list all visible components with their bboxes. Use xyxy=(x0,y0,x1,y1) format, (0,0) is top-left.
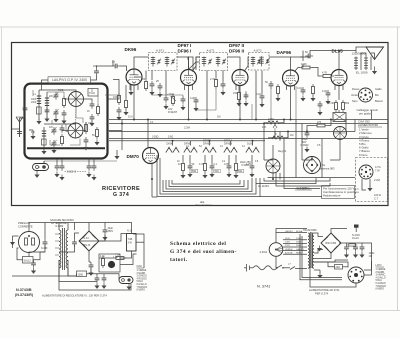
volume pot 0.5M xyxy=(264,118,282,131)
wires from tuner box right edge xyxy=(108,93,120,99)
svg-text:Blu: Blu xyxy=(375,93,379,97)
faint page border top xyxy=(0,26,400,28)
tuner label box LA/LP/V1 xyxy=(48,77,91,83)
grid cap 47 to DK96 xyxy=(112,64,120,69)
svg-text:N.3289: N.3289 xyxy=(56,225,64,228)
wire R.SENT feed xyxy=(105,94,119,96)
svg-text:B30 C350: B30 C350 xyxy=(326,242,337,245)
svg-text:7 BIANCO: 7 BIANCO xyxy=(137,286,148,289)
svg-text:Rosso: Rosso xyxy=(352,87,360,91)
mid components under tents 4.7K 0.1 xyxy=(199,161,255,178)
svg-text:DF96 II: DF96 II xyxy=(224,143,233,146)
svg-text:LA/LP/V1 G.P. IV. 2400: LA/LP/V1 G.P. IV. 2400 xyxy=(52,78,87,82)
svg-text:DM70: DM70 xyxy=(127,154,140,159)
svg-text:2 MARR.: 2 MARR. xyxy=(137,272,147,275)
1000 box pot xyxy=(77,271,87,277)
right cable list LATO xyxy=(376,264,387,291)
svg-text:TC/B: TC/B xyxy=(58,90,64,92)
IF transformer A671 II dashed box xyxy=(200,53,228,71)
svg-text:4 ROSSO: 4 ROSSO xyxy=(137,278,147,280)
mains plug prongs xyxy=(244,264,253,272)
wire from label box left xyxy=(42,80,49,90)
svg-text:100 Ω: 100 Ω xyxy=(374,193,381,197)
cord wavy xyxy=(253,266,277,270)
svg-text:AZZUR.: AZZUR. xyxy=(285,251,293,254)
svg-text:7 W: 7 W xyxy=(375,168,380,172)
right schematic wires xyxy=(314,233,323,237)
svg-text:4 GIALLO: 4 GIALLO xyxy=(376,276,386,279)
svg-text:100K: 100K xyxy=(31,99,37,101)
svg-text:N.34: N.34 xyxy=(84,237,90,240)
voltage selector xyxy=(260,243,283,257)
svg-text:Raddrizzatore: Raddrizzatore xyxy=(323,194,341,198)
tuner interior resistor mid xyxy=(63,96,66,108)
reg fil crossed box xyxy=(333,113,346,122)
svg-text:Su: Su xyxy=(322,163,326,167)
wave band switch rotary xyxy=(266,150,287,173)
AVC bus xyxy=(109,123,388,125)
extra vertical drops to loop area xyxy=(263,124,265,161)
470 wiring xyxy=(307,126,315,131)
tuner interior trimmer row xyxy=(53,92,58,122)
loop bottom connectors xyxy=(152,196,157,198)
svg-text:47K: 47K xyxy=(31,132,36,134)
svg-text:ALIMENTATORE DI REGOLATORE V: ALIMENTATORE DI REGOLATORE V.I. 13/I PER… xyxy=(42,294,107,298)
svg-text:DAF96: DAF96 xyxy=(277,50,292,55)
svg-text:C.7: C.7 xyxy=(374,196,379,200)
DM70 right components 10 50 xyxy=(178,161,195,178)
wire DAF96 anode to DL95 grid xyxy=(295,68,301,72)
tube DK96 xyxy=(126,69,142,85)
svg-text:alimentazione: alimentazione xyxy=(195,203,213,207)
svg-text:G 374: G 374 xyxy=(113,192,129,198)
svg-text:DL95: DL95 xyxy=(332,49,344,54)
svg-text:16+16: 16+16 xyxy=(352,237,359,240)
tube DAF96 xyxy=(283,70,299,86)
antenna xyxy=(16,117,23,137)
volume pot wiring xyxy=(263,122,265,125)
svg-text:5.6Ω: 5.6Ω xyxy=(168,136,173,139)
antenna wire into tuner xyxy=(20,118,25,137)
tuner right components xyxy=(90,101,95,109)
svg-text:A.671: A.671 xyxy=(207,49,215,53)
tuner unit rounded box xyxy=(25,84,108,159)
switch drop xyxy=(272,145,274,159)
svg-text:5 BLU: 5 BLU xyxy=(137,281,144,283)
wire IF1 to DF96I grid xyxy=(177,57,189,70)
vertical drops from tubes to bus xyxy=(133,85,135,120)
svg-text:47K: 47K xyxy=(262,126,267,129)
svg-text:4.7K: 4.7K xyxy=(322,72,327,75)
pickup wire to switch xyxy=(43,161,45,164)
svg-text:+20μF: +20μF xyxy=(167,93,175,96)
regulator cluster xyxy=(99,254,120,272)
svg-text:2.7K: 2.7K xyxy=(210,78,215,81)
svg-text:7 BIANCO: 7 BIANCO xyxy=(376,285,387,288)
wire IF2 to DF96II xyxy=(228,57,241,70)
tuner right block TC/A xyxy=(88,89,98,97)
0.1uF cap xyxy=(43,239,48,247)
tuning gang RF section xyxy=(69,92,84,107)
tuner interior labels xyxy=(31,90,95,137)
ground under transformer xyxy=(317,273,322,279)
tube DL95 xyxy=(331,70,347,86)
faint page border right xyxy=(397,27,399,311)
extra verticals right section xyxy=(354,120,356,132)
470 resistor xyxy=(315,124,328,127)
svg-text:10 K: 10 K xyxy=(128,116,133,119)
wire DF96II anode to IF3 xyxy=(244,57,249,72)
battery connector oval xyxy=(119,277,133,290)
tuner osc coil stack xyxy=(41,127,46,154)
svg-text:CORRENTE: CORRENTE xyxy=(18,224,33,228)
tube DF96 I xyxy=(181,70,197,86)
component drops below tents xyxy=(182,155,184,161)
svg-text:5 BLU: 5 BLU xyxy=(376,280,383,282)
svg-text:8 Nero: 8 Nero xyxy=(359,153,368,157)
svg-text:1M: 1M xyxy=(217,116,220,119)
bus line 5 xyxy=(109,140,265,142)
svg-text:OSC: OSC xyxy=(88,123,93,125)
speaker triangle xyxy=(366,47,384,60)
tuner interior left coil stack 1 xyxy=(33,90,42,124)
svg-text:3 ARANC.: 3 ARANC. xyxy=(376,274,387,277)
svg-text:0.35Ω: 0.35Ω xyxy=(152,136,159,139)
svg-text:110V: 110V xyxy=(285,238,290,240)
PSU transformer xyxy=(50,219,74,276)
svg-text:per guida: per guida xyxy=(359,112,371,116)
DL95 cathode network 3.3K xyxy=(329,86,350,113)
svg-text:Verde: Verde xyxy=(351,93,358,97)
svg-text:1000: 1000 xyxy=(31,102,37,104)
svg-text:1K: 1K xyxy=(87,111,90,113)
selector drop to cord xyxy=(276,256,277,268)
wire DL95 anode to output transformer xyxy=(339,51,356,70)
tuning gang OSC section xyxy=(68,123,83,138)
svg-text:2.2M: 2.2M xyxy=(374,178,380,182)
faint page border left xyxy=(1,27,3,311)
svg-text:Giallo: Giallo xyxy=(375,87,382,91)
filter caps right xyxy=(344,225,365,258)
tube DF96 II xyxy=(232,70,248,86)
svg-text:CAVI: CAVI xyxy=(137,265,143,268)
tuner interior coil stack 2 xyxy=(44,92,49,122)
cavi dei alimentatori list xyxy=(358,120,382,157)
svg-text:Nero: Nero xyxy=(352,99,358,103)
svg-text:ALIMENTATORE AD 3741: ALIMENTATORE AD 3741 xyxy=(309,288,340,292)
svg-text:DF97 II: DF97 II xyxy=(229,43,244,48)
loop extensions right xyxy=(260,196,322,198)
DL95 grid components 4.7K xyxy=(317,72,333,116)
plug ground xyxy=(10,240,15,246)
DK96 bottom components xyxy=(128,71,162,98)
bus line 4 xyxy=(109,138,388,140)
svg-text:ROSA: ROSA xyxy=(296,230,303,233)
svg-text:Reg.Fil.: Reg.Fil. xyxy=(278,150,287,153)
junction dots on buses xyxy=(121,119,332,181)
0.22 cap right of DF96II xyxy=(260,93,265,101)
main receiver box xyxy=(12,43,389,206)
ground left of DM70 xyxy=(114,154,119,160)
svg-text:G 374 e dei suoi alimen-: G 374 e dei suoi alimen- xyxy=(170,249,237,255)
output transformer xyxy=(352,47,378,75)
svg-text:SAL12: SAL12 xyxy=(24,259,32,262)
bridge ground xyxy=(317,246,322,252)
svg-text:22Ω: 22Ω xyxy=(336,267,341,269)
socket cablaggio top view xyxy=(359,88,373,102)
DF96II cathode 15K xyxy=(233,86,249,107)
svg-text:6 GRIGIO: 6 GRIGIO xyxy=(376,283,386,285)
svg-text:4.7K: 4.7K xyxy=(100,256,105,258)
faint page border bottom xyxy=(0,310,400,312)
svg-text:(N.3743/R): (N.3743/R) xyxy=(15,293,34,297)
svg-text:RS 34: RS 34 xyxy=(84,244,91,247)
DF96I anode components 2.7K xyxy=(210,71,226,96)
svg-text:N. 3741: N. 3741 xyxy=(257,285,270,289)
svg-text:2.2M: 2.2M xyxy=(184,126,190,130)
svg-text:N.4801: N.4801 xyxy=(242,164,251,167)
svg-text:12Ω/500Ω: 12Ω/500Ω xyxy=(352,52,367,56)
wire 50 cap branch xyxy=(300,57,303,61)
cap right of transformer xyxy=(72,239,77,247)
wire across below tubes y110 xyxy=(196,89,216,110)
svg-text:DK96: DK96 xyxy=(125,47,137,52)
0.22 cap mid xyxy=(194,97,199,105)
7.5K resistor xyxy=(114,257,127,260)
20uF 10V R.SENT cluster xyxy=(163,93,185,114)
center caption schema elettrico xyxy=(170,241,237,263)
socket in dashed box xyxy=(359,165,373,179)
tube pin stubs xyxy=(129,84,131,90)
svg-text:0.05: 0.05 xyxy=(224,163,229,166)
switch contact xyxy=(277,265,282,268)
svg-text:A.672: A.672 xyxy=(254,49,262,53)
tuner interior wires xyxy=(39,90,76,92)
svg-text:2 MARR.: 2 MARR. xyxy=(376,271,386,274)
svg-text:DF96 II: DF96 II xyxy=(229,49,244,54)
right transformer xyxy=(303,229,317,268)
svg-text:A.671: A.671 xyxy=(156,49,164,53)
tube DM70 xyxy=(143,148,159,164)
wire DF96I anode up xyxy=(192,57,194,71)
filament tents xyxy=(166,146,172,152)
PSU wires xyxy=(29,223,103,232)
wire gang link xyxy=(75,107,78,124)
svg-text:LATO: LATO xyxy=(376,264,382,267)
tuner interior stepped wires xyxy=(52,120,68,124)
wire anode DK96 to IF1 xyxy=(134,57,149,69)
svg-text:1 VERDE: 1 VERDE xyxy=(137,270,147,272)
svg-text:A.5014: A.5014 xyxy=(260,251,268,254)
svg-text:0.22: 0.22 xyxy=(256,93,261,96)
svg-text:140V: 140V xyxy=(285,242,291,244)
DAF96 extra wires xyxy=(295,86,297,120)
svg-text:4.7K: 4.7K xyxy=(199,163,204,166)
svg-text:100K: 100K xyxy=(301,63,307,66)
DAF96 detector components xyxy=(265,51,316,101)
svg-text:0.28: 0.28 xyxy=(190,97,195,100)
antenna socket diamond xyxy=(304,157,335,174)
DM70 feed vertical xyxy=(147,120,149,148)
svg-text:4.7Ω: 4.7Ω xyxy=(375,165,381,169)
svg-text:AL 51085: AL 51085 xyxy=(296,186,308,190)
wire anode DF96I to IF2 xyxy=(189,62,200,70)
svg-text:150: 150 xyxy=(93,65,98,68)
PSU bridge xyxy=(79,231,99,251)
svg-text:R.SENT: R.SENT xyxy=(168,111,178,114)
25uF 40V N4900 electrolytic xyxy=(301,130,310,152)
svg-text:GRIGIO: GRIGIO xyxy=(285,231,293,233)
tent vertical feeds xyxy=(172,141,174,146)
svg-text:EL 1009: EL 1009 xyxy=(356,71,368,75)
svg-text:1 VERDE: 1 VERDE xyxy=(376,269,386,271)
reg fil spoked circle xyxy=(334,127,347,140)
svg-text:Schema elettrico del: Schema elettrico del xyxy=(170,241,226,247)
svg-text:0.02: 0.02 xyxy=(322,90,327,93)
svg-text:350V: 350V xyxy=(108,230,114,233)
R.SENT pot arrow xyxy=(171,96,177,101)
svg-text:1.2K: 1.2K xyxy=(113,257,118,259)
tuner osc trimmers xyxy=(51,125,64,153)
svg-text:260V: 260V xyxy=(296,245,302,247)
svg-text:220V: 220V xyxy=(285,245,291,247)
svg-text:22K: 22K xyxy=(141,78,146,81)
B+ bus main xyxy=(109,119,388,121)
ballast tube box xyxy=(127,230,137,252)
DK96 left components cluster xyxy=(113,80,129,121)
svg-text:3 W: 3 W xyxy=(128,241,133,244)
svg-text:1000: 1000 xyxy=(78,273,84,276)
svg-text:10K: 10K xyxy=(113,96,118,99)
IF transformer A671 I dashed box xyxy=(149,53,178,71)
left caps outside tuner xyxy=(23,105,28,113)
svg-text:500: 500 xyxy=(345,102,350,105)
IF transformer A672 dashed box xyxy=(249,53,270,71)
boxed 50ohm labels under tents xyxy=(177,161,259,173)
right bridge xyxy=(321,233,341,253)
note text box per funzionamento xyxy=(322,186,355,199)
svg-text:0.01: 0.01 xyxy=(297,87,302,90)
svg-text:8 NERO: 8 NERO xyxy=(376,289,385,291)
svg-text:TRASFORM.: TRASFORM. xyxy=(303,229,317,232)
svg-text:3 GRIGIO: 3 GRIGIO xyxy=(137,276,147,278)
second switch xyxy=(290,267,295,270)
fuse box xyxy=(23,257,34,264)
svg-text:3.3K: 3.3K xyxy=(329,102,334,105)
vertical tuner feeds xyxy=(121,120,123,151)
svg-text:N.489: N.489 xyxy=(41,247,48,250)
svg-text:DF97 I: DF97 I xyxy=(178,43,192,48)
svg-text:8 NERO: 8 NERO xyxy=(137,290,146,292)
svg-text:PRESA DI: PRESA DI xyxy=(18,221,30,225)
wire IF3 to DAF96 xyxy=(269,57,291,70)
PSU electrolytic 32uF xyxy=(102,227,113,240)
svg-text:6 GIALLO: 6 GIALLO xyxy=(137,283,147,286)
svg-text:1M: 1M xyxy=(290,134,293,137)
selector lines to transformer xyxy=(276,233,307,243)
svg-text:tatori.: tatori. xyxy=(170,257,188,263)
svg-text:AL 11049: AL 11049 xyxy=(258,184,269,188)
top loop from selector xyxy=(276,229,307,233)
left return wires xyxy=(302,236,342,278)
7 pin socket bottom xyxy=(348,267,364,283)
svg-text:DF96 I: DF96 I xyxy=(178,49,192,54)
tuner internal thick bar xyxy=(27,147,105,149)
svg-text:Bianco: Bianco xyxy=(375,99,383,103)
22ohm box xyxy=(335,265,343,270)
svg-text:5K: 5K xyxy=(92,135,95,137)
electrolytic pair 1 below tuner xyxy=(54,159,64,180)
svg-text:125V: 125V xyxy=(296,238,302,240)
wire below tuner xyxy=(44,160,117,162)
bus line 3 xyxy=(109,131,355,133)
svg-text:0.1: 0.1 xyxy=(214,163,218,166)
wire from label box right to grid cap xyxy=(91,76,97,81)
svg-text:N.3743/B: N.3743/B xyxy=(16,288,32,292)
svg-text:PER G.374: PER G.374 xyxy=(315,291,329,295)
electrolytic pair 2 xyxy=(86,158,96,181)
svg-text:VERDE: VERDE xyxy=(285,249,293,251)
tone pot zigzag xyxy=(268,133,284,140)
svg-text:160V: 160V xyxy=(296,242,302,244)
nested bus loops bottom xyxy=(157,155,260,197)
extra loop lines right xyxy=(276,173,330,186)
mains plug circle xyxy=(19,232,40,253)
PU pickup jack xyxy=(33,161,49,178)
dashed box 110V dc right xyxy=(356,158,388,202)
svg-text:15K: 15K xyxy=(233,92,238,95)
pot to switch wires xyxy=(279,132,281,141)
